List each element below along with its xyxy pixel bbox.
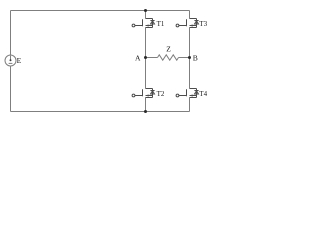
svg-text:T1: T1 (157, 20, 165, 28)
wire T3 source to node B (189, 28, 191, 58)
transistor T3 (MOSFET with body diode) (176, 19, 199, 28)
svg-text:Z: Z (166, 45, 171, 54)
source E center dot (10, 59, 12, 61)
svg-text:T3: T3 (199, 20, 207, 28)
wire T1/T2 branch: top rail to T1 drain (145, 11, 147, 19)
node junction on bottom rail (144, 110, 147, 113)
transistor T1 (MOSFET with body diode) (132, 19, 155, 28)
wire T1 source to node A (145, 28, 147, 58)
svg-text:E: E (17, 56, 22, 65)
wire left vertical below source E (10, 66, 12, 112)
svg-text:T4: T4 (199, 90, 207, 98)
svg-text:B: B (193, 54, 198, 63)
wire T4 source to bottom rail (189, 98, 191, 112)
transistor T2 (MOSFET with body diode) (132, 89, 155, 98)
node A junction (144, 56, 147, 59)
source E minus dash (9, 62, 13, 64)
wire resistor Z to node B (179, 57, 190, 59)
wire T3/T4 branch: top rail to T3 drain (189, 11, 191, 19)
svg-text:T2: T2 (157, 90, 165, 98)
node B junction (188, 56, 191, 59)
transistor T4 (MOSFET with body diode) (176, 89, 199, 98)
wire T2 source to bottom rail (145, 98, 147, 112)
wire node B to T4 drain (189, 58, 191, 89)
wire left vertical above source E (10, 11, 12, 56)
wire top rail (11, 10, 190, 12)
source E plus tick (10, 56, 12, 61)
wire bottom rail (11, 111, 190, 113)
source E circle (5, 55, 16, 66)
svg-text:A: A (135, 54, 141, 63)
resistor Z zigzag (158, 55, 179, 60)
node junction on top rail (144, 9, 147, 12)
wire node A to resistor Z (146, 57, 158, 59)
wire node A to T2 drain (145, 58, 147, 89)
